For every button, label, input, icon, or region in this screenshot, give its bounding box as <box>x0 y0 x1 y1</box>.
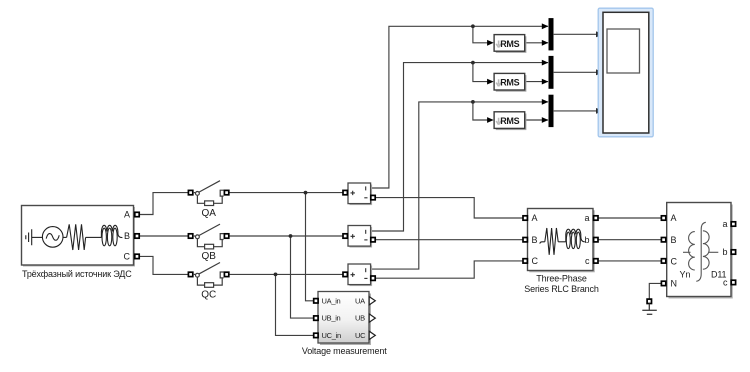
transformer shadow <box>669 205 733 299</box>
wire source B to QB <box>139 235 188 237</box>
mux 2 <box>549 56 554 89</box>
signal wire iA up to row1 <box>371 26 548 188</box>
current measurement C input port <box>343 272 347 276</box>
svg-text:a: a <box>722 219 727 229</box>
voltage measurement input port UB_in <box>314 316 318 320</box>
svg-text:UA: UA <box>355 296 365 305</box>
junction node row2/RMS2 <box>471 61 475 65</box>
scope body <box>603 12 649 133</box>
svg-text:UB_in: UB_in <box>322 314 341 323</box>
current measurement A minus port <box>371 195 375 199</box>
breaker QC <box>188 263 228 288</box>
signal mux2 to scope in2 <box>554 71 597 73</box>
svg-text:UB: UB <box>355 314 365 323</box>
svg-text:Yn: Yn <box>680 269 691 279</box>
mux 1 <box>549 18 554 50</box>
ground port square <box>647 299 651 303</box>
wire RLC b to transformer B <box>598 239 661 241</box>
arrowheads into RMS3 <box>487 117 494 123</box>
source resistor zigzag <box>67 224 86 250</box>
RMS2 shadow <box>496 75 527 92</box>
arrowhead mux3 bottom input <box>542 117 549 123</box>
svg-text:Трёхфазный источник ЭДС: Трёхфазный источник ЭДС <box>22 269 132 279</box>
wire RLC c to transformer C <box>598 260 661 262</box>
scope screen icon <box>607 29 640 73</box>
transformer port square a <box>731 222 735 226</box>
wire branch QC to UC_in <box>276 274 314 335</box>
transformer left winding <box>689 232 695 270</box>
svg-text:A: A <box>124 210 130 220</box>
arrowhead scope input 2 <box>596 69 603 75</box>
svg-text:C: C <box>124 252 131 262</box>
svg-text:UC_in: UC_in <box>322 331 341 340</box>
svg-text:RMS: RMS <box>500 39 519 49</box>
source inductor coil <box>101 225 122 237</box>
transformer port square c <box>731 280 735 284</box>
svg-text:Three-Phase: Three-Phase <box>536 274 587 284</box>
breaker QB <box>188 224 228 249</box>
RMS2 body <box>494 73 525 90</box>
svg-text:Voltage measurement: Voltage measurement <box>302 346 387 356</box>
scope selection highlight <box>598 8 653 137</box>
signal branch row2 to RMS2 <box>473 63 488 82</box>
RMS3 badge arrow <box>496 118 501 125</box>
RLC inductor coil <box>566 229 585 242</box>
current measurement B minus port <box>371 238 375 242</box>
svg-text:QB: QB <box>201 251 216 262</box>
svg-text:B: B <box>671 235 677 245</box>
source lead sine to resistor <box>63 236 67 238</box>
svg-text:B: B <box>124 231 130 241</box>
signal wire iC up to row3 <box>371 102 548 269</box>
svg-text:Series RLC Branch: Series RLC Branch <box>524 284 599 294</box>
arrowhead mux2 bottom input <box>542 79 549 85</box>
signal RMS3 to mux3 <box>525 119 548 121</box>
transformer port square B <box>661 238 665 242</box>
current measurement C body <box>348 264 371 285</box>
svg-text:b: b <box>584 235 589 245</box>
arrowhead mux3 top input <box>542 99 549 105</box>
RLC port square B <box>523 238 527 242</box>
arrowhead mux1 bottom input <box>542 40 549 46</box>
RLC link <box>558 241 566 243</box>
transformer body <box>667 203 731 297</box>
RMS1 shadow <box>496 36 527 53</box>
RMS2 badge arrow <box>496 79 501 86</box>
svg-text:UC: UC <box>355 331 366 340</box>
transformer port square b <box>731 250 735 254</box>
transformer right winding <box>703 231 709 269</box>
wire QA out to current measurement A <box>229 192 343 194</box>
source port square C <box>135 254 139 258</box>
svg-text:B: B <box>532 235 538 245</box>
arrowheads into RMS1 <box>487 40 494 46</box>
svg-text:C: C <box>671 256 678 266</box>
voltage measurement output arrow UA <box>369 297 375 305</box>
junction node row1/RMS1 <box>471 24 475 28</box>
transformer port square N <box>661 281 665 285</box>
current measurement A shadow <box>350 185 373 206</box>
current measurement A input port <box>343 190 347 194</box>
signal mux3 to scope in3 <box>554 110 597 112</box>
RLC port square C <box>523 259 527 263</box>
source block shadow <box>23 207 135 267</box>
wire B minus to RLC B <box>375 239 523 241</box>
svg-text:b: b <box>722 247 727 257</box>
wire QC out to current measurement C <box>229 273 343 275</box>
mux 3 <box>549 95 554 127</box>
current measurement B input port <box>343 234 347 238</box>
svg-text:a: a <box>584 213 589 223</box>
wire RLC a to transformer A <box>598 217 661 219</box>
signal branch row1 to RMS1 <box>473 26 488 43</box>
RLC branch body <box>528 209 594 271</box>
svg-text:A: A <box>532 213 538 223</box>
signal RMS1 to mux1 <box>525 42 548 44</box>
transformer right lead <box>709 251 719 253</box>
voltage measurement body <box>318 292 369 344</box>
RMS1 badge arrow <box>496 41 501 48</box>
RLC branch shadow <box>529 210 595 272</box>
RLC port square c <box>594 259 598 263</box>
svg-text:c: c <box>585 256 590 266</box>
wire A minus to RLC A <box>375 198 523 218</box>
voltage measurement output arrow UC <box>369 331 375 339</box>
source port square B <box>135 234 139 238</box>
RLC resistor zigzag <box>545 228 558 255</box>
wire QB out to current measurement B <box>229 235 343 237</box>
source block body <box>22 206 134 266</box>
signal mux1 to scope in1 <box>554 33 597 35</box>
RMS3 shadow <box>496 114 527 131</box>
svg-text:RMS: RMS <box>500 116 519 126</box>
wire transformer N to ground <box>649 283 661 299</box>
current measurement A body <box>348 183 371 204</box>
svg-text:QC: QC <box>201 290 216 301</box>
arrowhead mux1 top input <box>542 23 549 29</box>
transformer left lead <box>683 251 691 253</box>
source lead resistor to inductor <box>86 236 102 238</box>
RMS1 body <box>494 35 525 52</box>
breaker QA <box>188 181 228 206</box>
transformer port square C <box>661 259 665 263</box>
RLC lead in <box>540 242 545 244</box>
voltage measurement input port UC_in <box>314 333 318 337</box>
signal RMS2 to mux2 <box>525 81 548 83</box>
svg-text:c: c <box>723 278 728 288</box>
source ground symbol <box>26 229 32 245</box>
signal branch row3 to RMS3 <box>473 102 488 120</box>
RLC port square b <box>594 238 598 242</box>
signal wire iB up to row2 <box>371 63 548 231</box>
junction node QB/UB <box>289 234 293 238</box>
svg-text:QA: QA <box>201 208 216 219</box>
source sine circle <box>42 227 63 248</box>
RLC port square A <box>523 216 527 220</box>
svg-text:N: N <box>671 279 678 289</box>
wire branch QB to UB_in <box>291 236 314 318</box>
wire source C to QC <box>139 256 188 274</box>
source lead ground to sine <box>32 236 43 238</box>
svg-text:C: C <box>532 256 539 266</box>
source sine wave <box>46 234 59 241</box>
current measurement C shadow <box>350 266 373 287</box>
wire branch QA to UA_in <box>306 193 314 301</box>
voltage measurement output arrow UB <box>369 314 375 322</box>
arrowhead scope input 3 <box>596 108 603 114</box>
wire C minus to RLC C <box>375 261 523 278</box>
current measurement C minus port <box>371 276 375 280</box>
transformer core line <box>696 222 706 281</box>
wire source A to QA <box>139 193 188 215</box>
svg-text:A: A <box>671 213 677 223</box>
current measurement B shadow <box>350 227 373 248</box>
ground symbol <box>642 304 657 315</box>
current measurement B body <box>348 226 371 247</box>
arrowhead mux2 top input <box>542 60 549 66</box>
voltage measurement input port UA_in <box>314 299 318 303</box>
junction node QC/UC <box>274 273 278 277</box>
RLC port square a <box>594 216 598 220</box>
voltage measurement shadow <box>320 294 371 346</box>
junction node row3/RMS3 <box>471 100 475 104</box>
svg-text:UA_in: UA_in <box>322 296 341 305</box>
source port square A <box>135 212 139 216</box>
arrowhead scope input 1 <box>596 31 603 37</box>
junction node QA/UA <box>304 191 308 195</box>
arrowheads into RMS2 <box>487 79 494 85</box>
svg-text:RMS: RMS <box>500 78 519 88</box>
transformer port square A <box>661 216 665 220</box>
RMS3 body <box>494 112 525 129</box>
